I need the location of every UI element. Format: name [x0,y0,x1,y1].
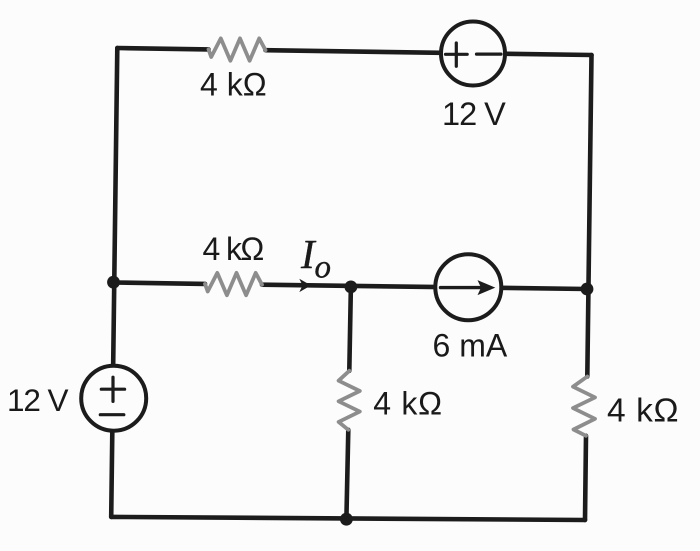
resistor R1 4 kOhm (top) [209,38,266,60]
wire right (top-right corner down to bottom-right corner), upper part [587,55,591,377]
V2 plus sign [446,43,468,66]
V1 minus sign [100,413,124,416]
svg-text:12 V: 12 V [442,96,506,132]
V2 minus sign [477,52,502,55]
node junction dot middle-right [581,283,594,296]
svg-text:12 V: 12 V [7,382,68,418]
wire top resistor to top-right corner [266,50,592,55]
node junction dot middle-center [345,281,358,294]
resistor R3 4 kOhm (middle vertical) [339,371,360,430]
resistor R2 4 kOhm (middle) [205,273,262,295]
svg-text:4 kΩ: 4 kΩ [607,393,679,430]
I1 arrowhead [478,280,496,295]
wire left (top-left corner down to bottom-left corner) [111,48,117,517]
wire middle node down to resistor R3 [349,286,351,371]
V1 plus sign [101,377,124,401]
wire bottom (bottom-left to bottom-right corner) [111,517,585,520]
svg-text:4 kΩ: 4 kΩ [203,231,264,267]
node junction dot bottom-center [340,513,353,526]
node junction dot middle-left [107,276,120,289]
I1 arrow shaft [441,286,482,289]
wire right lower part [585,436,586,520]
resistor R4 4 kOhm (right vertical) [573,377,595,436]
svg-text:4 kΩ: 4 kΩ [373,386,442,422]
current source I1 circle [435,254,501,320]
current Io arrowhead on middle wire [299,279,311,292]
wire top-left to top resistor [117,48,208,49]
voltage source V1 circle [81,366,146,431]
voltage source V2 circle [441,22,505,86]
svg-text:6 mA: 6 mA [433,328,508,364]
svg-text:4 kΩ: 4 kΩ [200,67,267,103]
wire mid resistor to mid-right node [262,285,587,289]
wire below R3 to bottom wire [346,430,348,519]
svg-text:o: o [315,249,332,285]
wire middle-left node to mid resistor [114,283,206,284]
